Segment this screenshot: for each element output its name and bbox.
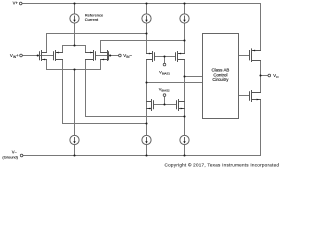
svg-text:Copyright © 2017, Texas Instru: Copyright © 2017, Texas Instruments Inco… xyxy=(165,162,280,168)
svg-text:Circuitry: Circuitry xyxy=(212,77,229,82)
svg-text:Current: Current xyxy=(85,17,99,22)
svg-text:V+: V+ xyxy=(13,1,19,6)
svg-text:(Ground): (Ground) xyxy=(2,155,18,160)
